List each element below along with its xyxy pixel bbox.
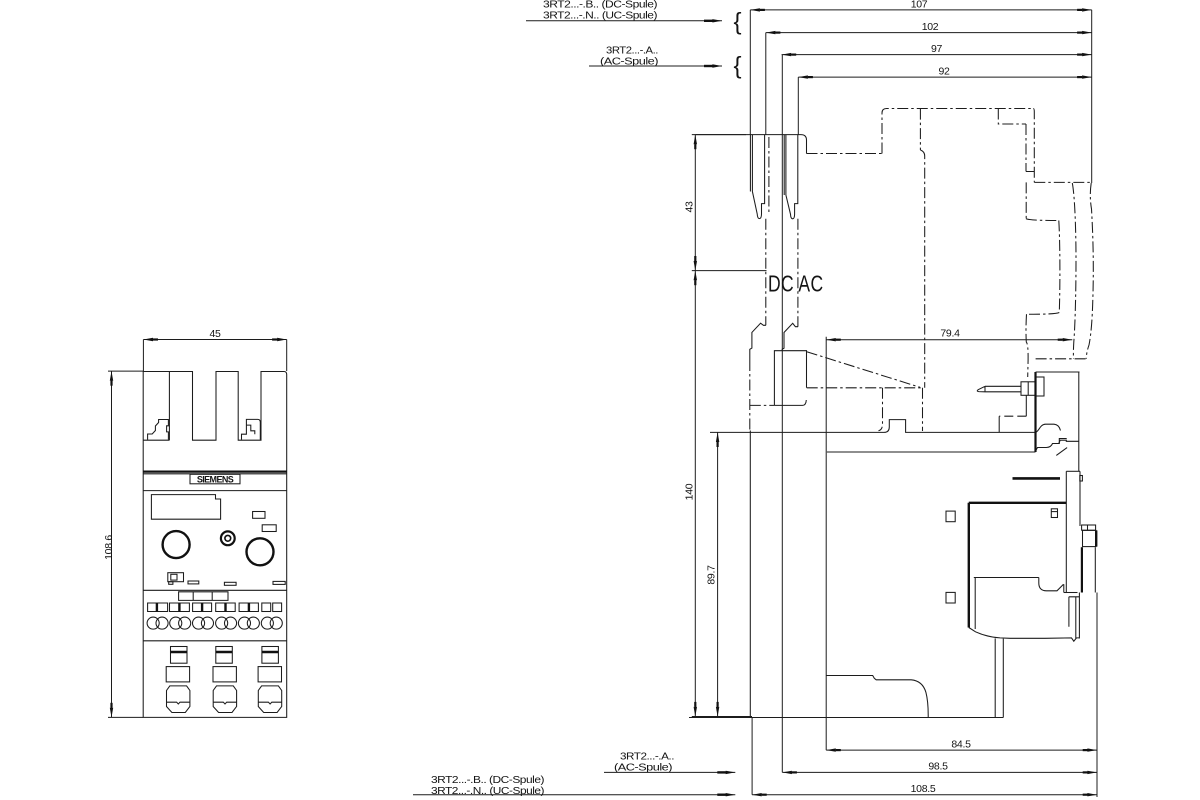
contactor DIN clip curve right phantom (1086, 183, 1093, 359)
relay DIN plate small (1082, 525, 1096, 530)
extension line x798 top (797, 77, 799, 135)
bar top edge y471.3 (1066, 470, 1080, 472)
extension line x750 top (749, 10, 751, 135)
contactor hook A taper and tip (752, 135, 764, 219)
relay inner ledge line y452 (827, 440, 1079, 452)
svg-text:DC AC: DC AC (768, 271, 824, 297)
front view body outline with top slots (143, 372, 287, 718)
contactor rear foot phantom x921 (922, 388, 924, 431)
svg-text:{: { (734, 53, 742, 80)
svg-text:3RT2...-.A..: 3RT2...-.A.. (606, 45, 658, 56)
relay bottom curve (969, 628, 1080, 642)
dim 92 left arrow (798, 75, 808, 78)
dim 98.5 line (782, 771, 1097, 773)
relay front foot verticals (995, 638, 1003, 717)
bottom terminal column 1 clamp (167, 686, 190, 713)
dim 84.5 right arrow (1087, 748, 1097, 751)
dim 108.6 line (111, 371, 113, 717)
bottom terminal column 2 square (213, 667, 236, 682)
terminal square row group 2 (170, 603, 190, 612)
extension line x826 (825, 337, 827, 750)
svg-text:3RT2...-.N.. (UC-Spule): 3RT2...-.N.. (UC-Spule) (543, 10, 657, 21)
dim 89.7 top arrow (716, 432, 719, 442)
dim 43/140 shared extension at y270.6 (692, 270, 767, 272)
dim 43 top arrow (694, 135, 697, 145)
terminal square row group 3 (193, 603, 212, 612)
bold vertical x1035.5 (1034, 372, 1036, 452)
block inner vertical x975.2 (974, 578, 976, 630)
dim 79.4 left arrow (826, 338, 836, 341)
vertical x1078.8 (1078, 372, 1080, 471)
relay DIN box bold right edge (1095, 530, 1097, 546)
block inner horizontal y577.5 (974, 577, 1039, 579)
svg-text:108.5: 108.5 (911, 783, 936, 795)
clamp circles group 2 (170, 617, 182, 629)
dim 108.6 bottom arrow (110, 708, 113, 718)
svg-text:84.5: 84.5 (951, 738, 971, 750)
contactor mid phantom vertical x920 upper (919, 109, 921, 150)
dim 140 bottom extension (692, 716, 752, 718)
relay terminal block bold left edge (968, 503, 970, 628)
contactor under-collar outline (999, 395, 1026, 432)
relay terminal block bold top (969, 502, 1067, 504)
contactor coil pin (977, 386, 1021, 392)
dim 108.5 left arrow (752, 793, 762, 796)
dim 108.6 extension lines (108, 371, 143, 717)
contactor rear step y219 phantom (1026, 219, 1059, 221)
terminal square row group 5 (239, 603, 258, 612)
dim 140 line (694, 271, 696, 717)
dim 84.5 left arrow (826, 748, 836, 751)
dim 108.5 right arrow (1087, 793, 1097, 796)
bottom terminal column 3 clamp (258, 686, 281, 713)
dim 102 right arrow (1082, 31, 1092, 34)
svg-text:{: { (734, 9, 742, 36)
svg-text:45: 45 (209, 328, 221, 340)
contactor base bottom edge phantom y387.8 (807, 387, 921, 389)
svg-text:97: 97 (931, 43, 943, 55)
front view inner ledge line under left shoulder (143, 372, 169, 441)
extension line x1091 right (1091, 10, 1093, 183)
selector switch outer rect (168, 573, 184, 582)
bottom terminal column 1 square (166, 667, 189, 682)
svg-text:SIEMENS: SIEMENS (197, 474, 234, 484)
front view band bottom line (143, 490, 287, 492)
contactor mid phantom vertical x924 (920, 150, 924, 388)
dim 79.4 right arrow (1063, 338, 1073, 341)
dim 97 left arrow (782, 53, 792, 56)
svg-text:3RT2...-.A..: 3RT2...-.A.. (620, 751, 674, 762)
dim 43 line (694, 135, 696, 271)
relay bottom edge (689, 717, 1003, 719)
dim 107 left arrow (750, 8, 760, 11)
front view right mounting hook (242, 419, 261, 439)
phantom variant column line x797.9 (797, 219, 799, 327)
rear lower rect (1069, 593, 1080, 639)
relay bottom inner contour (826, 676, 928, 718)
dim 108.5 line (752, 794, 1097, 796)
relay ledge small step rect (1059, 439, 1066, 445)
dim 140 top arrow (694, 271, 697, 281)
dim 89.7 line (717, 432, 719, 716)
terminal square row group 4 (216, 603, 236, 612)
contactor hook A left edges (750, 135, 752, 192)
svg-text:98.5: 98.5 (928, 761, 948, 773)
clamp circles group 3 (193, 617, 205, 629)
AC label leader line with arrow (589, 65, 722, 67)
bottom terminal column 1 screw (171, 647, 188, 664)
terminal square row group 6 (262, 603, 271, 612)
dim 102 line (766, 32, 1092, 34)
contactor hook B taper and tip (786, 135, 798, 219)
clamp circles group 4 (216, 617, 228, 629)
small clip rect inside block (1051, 509, 1057, 518)
small flat rect right (273, 581, 285, 584)
contactor rear top corner phantom (1033, 109, 1034, 183)
auxiliary block inner step (998, 109, 1026, 125)
svg-text:140: 140 (684, 483, 696, 500)
contactor rear step y313 phantom (1027, 313, 1060, 315)
dim 45 extension lines (143, 340, 286, 372)
rear section below DIN box (1094, 547, 1096, 592)
relay left edge (749, 431, 751, 718)
coil front profile AC (782, 323, 798, 350)
dim 45 right arrow (277, 338, 287, 341)
front view band top bold line (143, 471, 287, 473)
dim 43 top extension (692, 134, 746, 136)
svg-text:108.6: 108.6 (103, 535, 115, 560)
svg-text:79.4: 79.4 (940, 328, 960, 340)
funnel lower horizontal y592.5 (1064, 592, 1078, 594)
contactor DIN clip curve left phantom (1072, 183, 1076, 359)
dim 107 line (750, 9, 1091, 11)
contactor hook B left edges (784, 135, 786, 195)
terminal square row group 1 (148, 603, 168, 612)
bar left edge (1065, 471, 1067, 592)
contactor rear vertical x1026 lower phantom (1026, 314, 1028, 377)
bottom terminal column 3 screw (262, 647, 279, 664)
coil box bottom phantom to left (750, 404, 775, 406)
small square marker lower (946, 592, 955, 603)
bottom terminal column 3 square (258, 667, 281, 682)
dim 79.4 line (826, 339, 1072, 341)
svg-text:43: 43 (684, 201, 696, 213)
front view band second line (143, 473, 287, 475)
svg-text:92: 92 (938, 66, 950, 78)
dim 108.6 top arrow (110, 371, 113, 381)
svg-text:89.7: 89.7 (706, 565, 718, 585)
relay DIN plate divider (1087, 525, 1089, 530)
auxiliary block outline phantom (882, 109, 1033, 154)
dim 107 right arrow (1082, 8, 1092, 11)
bottom terminal column 2 screw (216, 647, 233, 664)
display window with notched corner (151, 495, 220, 520)
coil front box solid (774, 351, 806, 406)
face bottom line (143, 589, 287, 591)
bottom terminal column 2 clamp (213, 686, 236, 713)
diagonal break tick (1056, 448, 1067, 456)
AC bottom leader with arrow (604, 771, 735, 773)
small rectangle lower right (262, 525, 276, 532)
SIEMENS logo box (190, 474, 240, 484)
dim 97 line (782, 54, 1092, 56)
lower section divider line (143, 640, 287, 642)
left adjustment dial (163, 531, 190, 558)
bold short horizontal y478 (1013, 477, 1061, 480)
clamp circles group 5 (238, 617, 250, 629)
dim 92 right arrow (1082, 75, 1092, 78)
dim 84.5 line (826, 749, 1097, 751)
dim 43 bottom arrow (694, 261, 697, 271)
bar small rect top right (1080, 476, 1083, 482)
top label leader line with arrow (526, 20, 722, 22)
svg-text:3RT2...-.B.. (DC-Spule): 3RT2...-.B.. (DC-Spule) (543, 0, 657, 11)
front view left mounting hook (148, 420, 169, 440)
coil collar front rect (1021, 382, 1036, 396)
clamp circles group 1 (147, 617, 159, 629)
clamp circles group 6 (261, 617, 273, 629)
dim 45 line (143, 339, 286, 341)
extension line x766 top (765, 33, 767, 135)
extension line x752 bottom (751, 718, 753, 795)
svg-text:3RT2...-.B.. (DC-Spule): 3RT2...-.B.. (DC-Spule) (431, 775, 544, 786)
contactor rear vertical x1026 phantom (1026, 124, 1034, 219)
dim 97 right arrow (1082, 53, 1092, 56)
dim 102 left arrow (766, 31, 776, 34)
extension line x1097 bottom right (1096, 593, 1098, 798)
coil front profile DC (750, 323, 766, 360)
contactor front foot phantom x882 (879, 388, 883, 431)
dim 89.7 bottom arrow (716, 707, 719, 717)
contactor base bottom phantom y358.8 (1036, 358, 1089, 360)
right adjustment dial (247, 538, 274, 565)
extension line x782 long (781, 55, 783, 773)
DC/UC bottom leader with arrow (413, 794, 735, 796)
relay DIN box (1083, 530, 1096, 546)
three-cell row above terminals (179, 592, 228, 601)
contactor top edge (695, 135, 806, 154)
test button outer (221, 531, 235, 545)
dim 92 line (798, 76, 1091, 78)
small flat rect middle (224, 582, 236, 585)
bar right edge (1079, 471, 1081, 526)
phantom variant column line x765.8 (765, 219, 767, 326)
relay top edge with notch (710, 420, 1035, 433)
box top y372 (1036, 371, 1080, 373)
contactor top step to auxiliary block (807, 153, 883, 155)
contactor rear vertical x1059 phantom (1059, 221, 1060, 313)
small square marker upper (946, 511, 955, 522)
diagonal wire guide phantom (807, 352, 920, 388)
contactor hook A variant phantom (768, 137, 770, 214)
small flat rect left (188, 581, 199, 584)
dim 98.5 right arrow (1087, 771, 1097, 774)
terminal funnel (1039, 578, 1064, 593)
dim 140 bottom arrow (694, 707, 697, 717)
svg-text:107: 107 (911, 0, 928, 11)
test button inner (225, 535, 231, 541)
small rectangle upper right (253, 512, 265, 519)
selector switch tab below (169, 582, 173, 585)
coil collar back rect (1036, 377, 1045, 396)
relay top right S-ledge (1035, 424, 1061, 432)
coil collar divider (1027, 382, 1029, 396)
dim 98.5 left arrow (782, 771, 792, 774)
contactor rear horizontal phantom y182 (1034, 181, 1091, 183)
svg-text:102: 102 (922, 21, 939, 33)
dim 45 left arrow (143, 338, 153, 341)
selector switch knob (171, 574, 177, 580)
